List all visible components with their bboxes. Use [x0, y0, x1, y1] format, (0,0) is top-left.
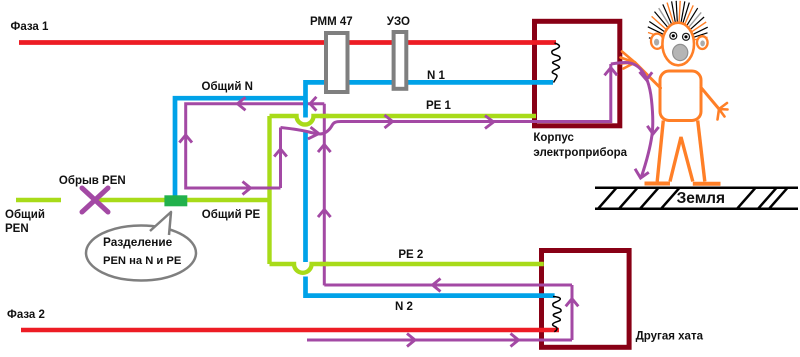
- svg-text:Разделение: Разделение: [103, 235, 173, 249]
- hair spikes: [648, 1, 708, 41]
- ground symbol Земля: [595, 188, 798, 209]
- svg-text:PE 1: PE 1: [426, 100, 452, 112]
- current loop inside house: [571, 285, 574, 340]
- svg-text:Общий: Общий: [5, 209, 45, 221]
- eyes: [670, 32, 690, 40]
- head: [662, 23, 694, 66]
- svg-text:PEN на N и PE: PEN на N и PE: [103, 255, 182, 267]
- wire PE 1 (green with hop over blue): [270, 116, 537, 125]
- arrow up inside appliance: [605, 68, 618, 76]
- svg-text:Фаза 1: Фаза 1: [11, 21, 50, 33]
- svg-text:электроприбора: электроприбора: [533, 147, 627, 159]
- wire patch: green PE1 over purple vertical: [320, 114, 328, 118]
- current up from house neutral: [323, 104, 326, 286]
- current along PE1 to appliance: [281, 128, 318, 134]
- arrows right along Фаза 2 current: [407, 334, 415, 347]
- arrows right along PE1 current: [385, 115, 393, 128]
- arrow up on PE branch: [274, 149, 287, 157]
- wire Фаза 2 (red phase line bottom): [21, 328, 559, 332]
- RCD УЗО: [394, 32, 407, 89]
- fault current path (purple): [179, 62, 658, 346]
- svg-text:РММ 47: РММ 47: [310, 16, 353, 28]
- arrow right toward PE trunk: [243, 182, 251, 195]
- right ear: [697, 36, 708, 49]
- wire patch: green PE2 over purple vertical: [320, 262, 328, 266]
- svg-text:PEN: PEN: [5, 223, 29, 235]
- svg-text:N 2: N 2: [395, 301, 413, 313]
- breaker РММ 47: [326, 33, 348, 92]
- arrow up inside house: [566, 299, 579, 307]
- left arm: [635, 63, 661, 89]
- person (shocked figure): [621, 1, 728, 184]
- current through person to earth: [611, 62, 653, 176]
- wire Общий N (blue common neutral): [175, 98, 306, 196]
- wire N vertical segment between hops: [303, 131, 308, 262]
- appliance body box (Корпус электроприбора): [535, 21, 620, 126]
- Обрыв PEN break mark (purple X): [82, 188, 108, 212]
- legs (trousers): [657, 121, 705, 182]
- right hand fingers: [718, 103, 728, 120]
- mouth (open, gray): [673, 44, 688, 60]
- svg-text:Обрыв PEN: Обрыв PEN: [59, 175, 126, 187]
- wire PE 2 (green with hop over blue): [270, 264, 544, 273]
- house box Другая хата: [542, 251, 630, 348]
- arrow down-left at person foot to earth: [635, 169, 649, 178]
- body: [660, 71, 701, 121]
- svg-text:Фаза 2: Фаза 2: [7, 309, 45, 321]
- arrow left on Общий N path: [238, 97, 246, 110]
- speech bubble (Разделение PEN на N и PE): [86, 212, 196, 281]
- current from house along N2: [324, 284, 572, 287]
- feet: [645, 182, 721, 186]
- arrow right near hop: [308, 127, 319, 139]
- wire Фаза 1 (red phase line): [19, 40, 556, 45]
- wire PE vertical trunk: [267, 116, 271, 264]
- svg-text:N 1: N 1: [427, 70, 446, 82]
- arrow down-right on person arm: [640, 72, 653, 80]
- arrow left on N2 return: [433, 279, 441, 292]
- svg-text:PE 2: PE 2: [398, 249, 423, 261]
- heating element coil in appliance: [552, 43, 560, 83]
- wire PEN continuation to split node: [94, 198, 270, 202]
- wire N2 (blue neutral to second house): [306, 277, 555, 296]
- svg-text:Другая хата: Другая хата: [636, 331, 704, 343]
- node Общий PE split (green junction box): [164, 195, 187, 206]
- left hand fingers: [621, 52, 636, 69]
- right arm: [701, 88, 719, 110]
- wire N1 (blue neutral to appliance): [306, 82, 554, 117]
- svg-text:УЗО: УЗО: [387, 16, 410, 28]
- wire patch: blue over purple at Общий N junction: [303, 100, 308, 107]
- current along Фаза 2 into house: [307, 339, 572, 342]
- current up PE trunk: [279, 128, 282, 189]
- arrows up on long vertical: [318, 145, 331, 153]
- arrowheads: [179, 68, 658, 347]
- arrow down on person body: [647, 126, 658, 134]
- arrow up on left loop: [179, 135, 192, 143]
- current along common N back: [186, 104, 325, 188]
- svg-text:Земля: Земля: [677, 190, 725, 207]
- svg-text:Общий N: Общий N: [202, 81, 253, 93]
- load coil in house: [553, 297, 561, 332]
- left ear: [651, 34, 663, 49]
- svg-text:Корпус: Корпус: [533, 132, 574, 144]
- wire Общий PEN (green-yellow, left segment before break): [16, 198, 61, 202]
- svg-text:Общий PE: Общий PE: [202, 209, 261, 221]
